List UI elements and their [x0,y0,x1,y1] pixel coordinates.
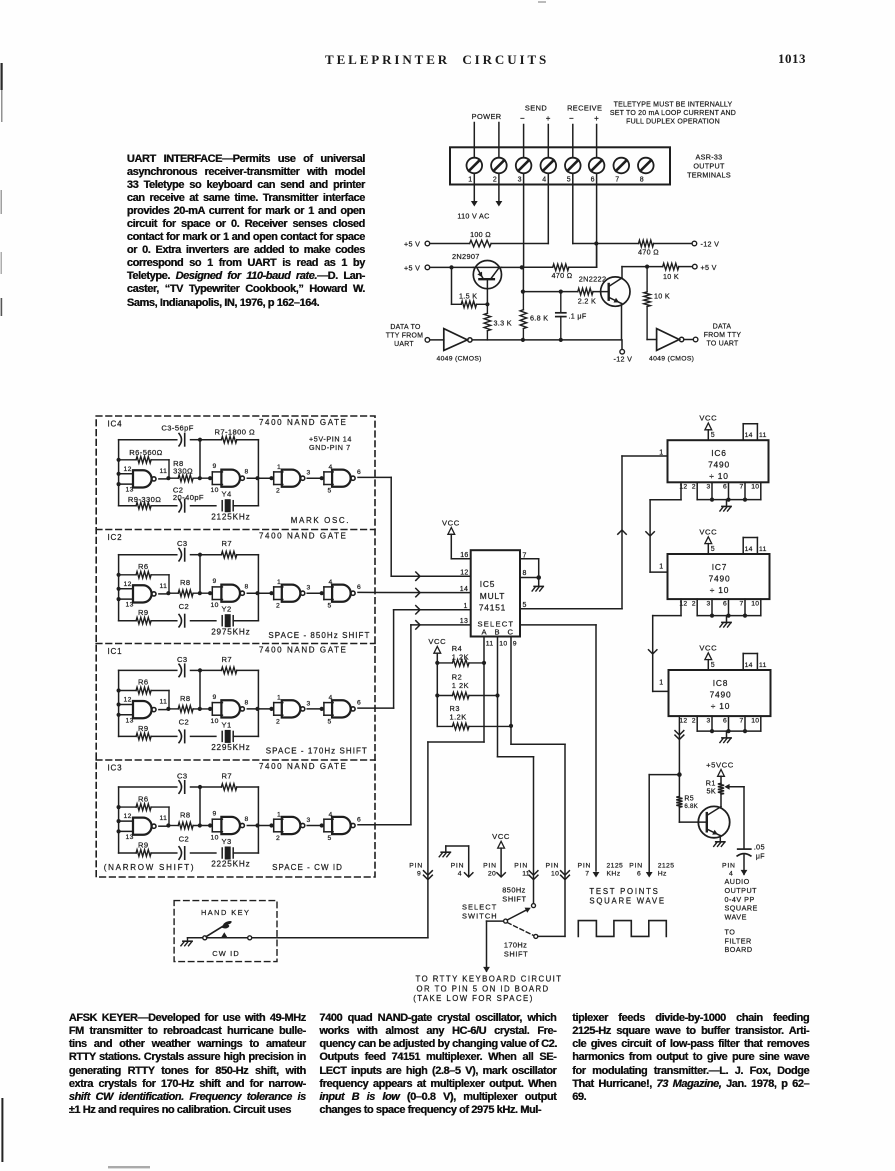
svg-text:R7: R7 [222,655,233,664]
nand gate B IC4 pins 9 10 8 [208,476,212,480]
svg-text:CW ID: CW ID [212,949,240,958]
wire IC7 pin12 to IC8 pin 1 [680,599,682,616]
capacitor C2 IC3 [179,847,182,859]
svg-text:2225KHz: 2225KHz [211,860,250,869]
wire feedback top [119,439,177,441]
select switch 850Hz contact [532,904,536,908]
counter IC7 7490 box [668,554,770,599]
svg-text:13: 13 [126,834,134,841]
svg-text:7: 7 [585,870,589,877]
svg-text:PIN: PIN [722,862,736,869]
svg-text:1: 1 [468,177,472,184]
svg-text:÷ 10: ÷ 10 [710,585,729,595]
resistor 1.5K [451,267,453,304]
svg-text:SPACE - 850Hz SHIFT: SPACE - 850Hz SHIFT [268,631,370,640]
screw terminal 3 [516,158,532,174]
transistor Q3 buffer [698,806,729,837]
svg-text:3: 3 [707,600,711,607]
resistor R9 IC4 [136,502,151,509]
resistor R8 IC2 [168,592,178,594]
svg-text:11: 11 [160,815,168,822]
svg-text:R6: R6 [138,562,149,571]
wire IC8 pin12 output [678,716,680,775]
svg-text:11: 11 [160,468,168,475]
svg-text:C3: C3 [177,539,188,548]
resistor R9 IC3 [136,850,151,857]
svg-text:+: + [594,114,599,123]
svg-text:5: 5 [711,662,715,669]
svg-text:R9-330Ω: R9-330Ω [128,495,161,504]
wire left rail [118,670,120,736]
svg-text:13: 13 [460,618,468,625]
svg-text:6: 6 [591,177,595,184]
wire t3 down [522,267,524,291]
svg-text:B: B [495,627,500,636]
svg-text:KHz: KHz [607,870,621,877]
paragraph AFSK KEYER caption col 2 [319,1012,556,1117]
svg-text:PIN: PIN [483,863,497,870]
svg-text:ASR-33: ASR-33 [696,153,723,162]
ground bus IC6 pins 2 3 6 7 10 [696,482,698,499]
svg-text:4: 4 [329,811,333,818]
capacitor C3 IC2 [179,549,182,561]
svg-text:SPACE - 170Hz SHIFT: SPACE - 170Hz SHIFT [266,747,368,756]
wire to test point PIN 6 [649,774,679,776]
screw terminal 8 [638,158,654,174]
svg-text:14: 14 [745,546,753,553]
svg-text:Y3: Y3 [222,837,232,846]
svg-text:R7: R7 [222,539,233,548]
connector PIN 7 test point [593,872,600,878]
svg-text:1: 1 [277,811,281,818]
svg-text:470 Ω: 470 Ω [552,271,573,280]
resistor 10K horizontal [663,263,679,270]
svg-text:+: + [546,114,551,123]
svg-text:3: 3 [307,585,311,592]
svg-text:-12 V: -12 V [701,240,720,249]
svg-text:20: 20 [488,870,496,877]
svg-text:7: 7 [615,177,619,184]
svg-text:6: 6 [357,816,361,823]
connector PIN 4 ground [445,846,447,852]
svg-text:AUDIO: AUDIO [725,877,750,886]
svg-text:−: − [520,114,525,123]
nand gate A IC1 pins 12 13 11 [119,704,133,706]
nand gate B IC3 pins 9 10 8 [208,823,212,827]
svg-text:1 2K: 1 2K [452,681,469,690]
svg-text:PIN: PIN [514,863,528,870]
wire terminal 5 RECEIVE- [572,125,574,244]
svg-text:3: 3 [707,717,711,724]
svg-text:6.8 K: 6.8 K [530,314,548,323]
scan artifact left edge [1,1,547,1168]
svg-text:20-40pF: 20-40pF [173,493,204,502]
wire select C to PIN 10 connector [511,743,565,745]
svg-text:2: 2 [276,488,280,495]
wire pin 7 to ground [520,558,539,560]
svg-text:6: 6 [637,870,641,877]
svg-text:10: 10 [211,835,219,842]
ground hand key [187,938,189,941]
pins 14-11 loop IC7 [742,538,744,555]
wire emitter down [621,304,623,340]
wire IC2 output to pin 14 [358,591,471,593]
node R8 out [198,476,202,480]
wire wiper to capacitor [743,787,745,848]
node C3/R7 [198,668,202,672]
ground bus IC7 pins 2 3 6 7 10 [696,599,698,616]
resistor R8 IC3 [168,825,178,827]
transistor Q2 2N2222 [601,277,630,306]
svg-text:6: 6 [723,600,727,607]
svg-text:470 Ω: 470 Ω [638,248,659,257]
svg-text:2295KHz: 2295KHz [211,743,250,752]
wire R1 to collector [720,794,722,806]
capacitor C .05uF [738,848,751,850]
wire left rail [118,440,120,506]
svg-text:1.5 K: 1.5 K [459,291,477,300]
svg-text:.1 μF: .1 μF [569,312,587,321]
svg-text:6.8K: 6.8K [684,803,698,810]
svg-text:OR TO PIN 5 ON ID BOARD: OR TO PIN 5 ON ID BOARD [417,984,550,993]
svg-text:VCC: VCC [492,832,510,841]
svg-text:1: 1 [277,695,281,702]
svg-text:IC7: IC7 [712,562,727,572]
svg-text:2: 2 [692,484,696,491]
svg-text:8: 8 [245,584,249,591]
svg-text:VCC: VCC [699,414,717,423]
svg-text:÷ 10: ÷ 10 [711,701,730,711]
svg-text:SHIFT: SHIFT [504,950,528,959]
svg-text:Y1: Y1 [222,720,232,729]
svg-text:TERMINALS: TERMINALS [687,171,731,180]
wire feedback top [119,669,177,671]
svg-text:2: 2 [493,177,497,184]
nand gate A IC3 pins 12 13 11 [119,820,133,822]
svg-text:TELETYPE MUST BE INTERNALLY: TELETYPE MUST BE INTERNALLY [614,102,733,109]
svg-text:C3: C3 [177,655,188,664]
svg-text:TTY FROM: TTY FROM [386,333,424,340]
resistor R8 IC1 [168,708,178,710]
svg-text:R6-560Ω: R6-560Ω [129,448,162,457]
crystal Y2 2975KHz [221,616,223,626]
terminal data input [425,338,430,343]
terminal -12V bottom [621,340,623,350]
svg-text:7: 7 [740,717,744,724]
svg-text:170Hz: 170Hz [504,941,527,950]
wire +5V to 2N2907 [430,266,474,268]
wire C3 node down [199,555,201,594]
svg-text:TEST POINTS: TEST POINTS [589,887,659,896]
wire IC1 output to pin 1 [358,707,394,709]
svg-text:C: C [508,627,514,636]
svg-text:C2: C2 [179,834,190,843]
svg-text:7: 7 [740,484,744,491]
capacitor C2 IC4 [179,500,182,512]
svg-text:13: 13 [126,717,134,724]
svg-text:2: 2 [276,835,280,842]
svg-text:11: 11 [759,432,767,439]
svg-text:VCC: VCC [699,528,717,537]
svg-text:5: 5 [567,177,571,184]
svg-text:0-4V PP: 0-4V PP [725,895,755,904]
svg-text:R8: R8 [180,578,191,587]
svg-text:7400 NAND GATE: 7400 NAND GATE [259,646,348,655]
paragraph UART INTERFACE caption [127,153,365,310]
svg-text:SHIFT: SHIFT [502,895,526,904]
wire t5 to -12V row [573,243,639,245]
wire terminal 4 SEND+ [547,125,549,244]
svg-text:4049 (CMOS): 4049 (CMOS) [649,356,694,363]
svg-text:TO RTTY KEYBOARD CIRCUIT: TO RTTY KEYBOARD CIRCUIT [416,975,563,984]
wire select A to PIN 9 connector [428,741,484,743]
wire pin 8 [520,577,539,579]
svg-text:9: 9 [513,641,517,648]
resistor R8 IC4 [168,477,178,479]
svg-text:13: 13 [126,602,134,609]
svg-text:8: 8 [640,177,644,184]
wire select B to PIN 11 connector [498,756,534,758]
svg-text:7490: 7490 [708,460,730,470]
svg-text:IC5: IC5 [480,579,495,589]
svg-text:TO UART: TO UART [706,341,739,348]
resistor 100 ohm [430,243,470,245]
svg-text:1: 1 [659,564,663,571]
running head TELEPRINTER CIRCUITS [325,52,546,68]
svg-text:R6: R6 [138,794,149,803]
wire t6 down to collector row [596,244,598,268]
wire bottom feedback [119,735,137,737]
svg-text:DATA TO: DATA TO [390,324,421,331]
svg-text:4: 4 [329,695,333,702]
wire left rail [118,555,120,621]
wire bottom feedback [119,620,137,622]
wire IC6 pin12 to IC7 pin 1 [680,482,682,500]
svg-text:+5 V: +5 V [404,240,420,249]
node gate B out [255,823,259,827]
svg-text:Y4: Y4 [222,490,232,499]
svg-text:+5 V: +5 V [404,264,420,273]
svg-text:1: 1 [277,579,281,586]
svg-text:3: 3 [518,177,522,184]
svg-text:9: 9 [213,811,217,818]
resistor R7 IC3 [200,786,221,788]
svg-text:HAND KEY: HAND KEY [201,908,250,917]
nand gate D IC2 pins 4 5 6 [320,591,324,595]
svg-text:11: 11 [160,583,168,590]
svg-text:10: 10 [751,600,759,607]
svg-text:IC1: IC1 [108,647,123,656]
capacitor .1uF [560,292,562,313]
select pin 10 line [497,637,499,757]
resistor R9 IC2 [136,617,151,624]
wire C3 node down [199,670,201,709]
svg-text:6: 6 [357,700,361,707]
svg-text:VCC: VCC [442,519,460,528]
svg-text:5: 5 [328,835,332,842]
svg-text:+5 V: +5 V [701,263,717,272]
wire IC4 output to pin 12 [358,476,391,478]
pins 14-11 loop IC6 [742,424,744,441]
svg-text:12: 12 [124,813,132,820]
resistor R6 IC2 [119,574,137,576]
svg-text:14: 14 [745,432,753,439]
node R8 out [198,823,202,827]
wire right rail [257,555,259,621]
ASR-33 terminal strip [450,147,670,184]
svg-text:5: 5 [711,546,715,553]
svg-text:R6: R6 [138,678,149,687]
page number 1013 [778,51,806,67]
wire terminal 1 power lead [473,123,475,202]
svg-text:8: 8 [245,816,249,823]
node gate B out [255,707,259,711]
svg-text:1 2K: 1 2K [452,652,469,661]
svg-text:SQUARE: SQUARE [725,904,758,913]
svg-text:2: 2 [692,717,696,724]
svg-text:PIN: PIN [629,863,643,870]
svg-text:6: 6 [723,717,727,724]
svg-text:2: 2 [276,718,280,725]
capacitor C3 IC4 [179,434,182,446]
node C3/R7 [198,438,202,442]
select pin 11 pullup line [483,637,485,743]
svg-text:10: 10 [551,870,559,877]
svg-text:.05: .05 [754,843,765,852]
svg-text:FROM TTY: FROM TTY [704,332,742,339]
multiplexer IC5 74151 box [471,550,520,636]
svg-text:8: 8 [245,469,249,476]
svg-text:12: 12 [124,581,132,588]
svg-text:3: 3 [307,817,311,824]
nand gate D IC4 pins 4 5 6 [320,476,324,480]
ground IC6 [726,500,728,507]
inverter 4049 left [444,329,468,351]
svg-text:GND-PIN 7: GND-PIN 7 [309,443,351,452]
svg-text:C2: C2 [179,718,190,727]
svg-text:IC4: IC4 [108,420,123,429]
svg-text:9: 9 [417,870,421,877]
svg-text:C2: C2 [179,602,190,611]
svg-text:2: 2 [692,600,696,607]
svg-text:6: 6 [357,469,361,476]
wire IC5 pin5 into IC6 pin 1 [622,455,668,457]
svg-text:SPACE - CW ID: SPACE - CW ID [272,863,343,872]
svg-text:MARK OSC.: MARK OSC. [291,516,350,525]
screw terminal 2 [491,158,507,174]
svg-text:VCC: VCC [428,637,446,646]
svg-text:R9: R9 [138,841,149,850]
node base divider [449,265,453,269]
svg-text:100 Ω: 100 Ω [470,230,491,239]
svg-text:SQUARE WAVE: SQUARE WAVE [589,896,665,905]
svg-text:10: 10 [211,487,219,494]
svg-text:R7: R7 [222,772,233,781]
switch dashed blade to 170Hz [507,923,533,936]
svg-text:UART: UART [394,341,414,348]
terminal +5V upper [425,241,430,246]
node R8 out [198,707,202,711]
svg-text:PIN: PIN [409,863,423,870]
svg-text:1.2K: 1.2K [450,713,467,722]
svg-text:R5: R5 [684,795,694,802]
wire bottom feedback [119,852,137,854]
resistor 6.8K [522,292,524,310]
nand gate C IC4 pins 1 2 3 [269,476,273,480]
resistor R7 IC4 [200,439,221,441]
svg-text:C3: C3 [177,772,188,781]
svg-text:PIN: PIN [451,863,465,870]
wire W output to test point PIN 7 [520,624,596,626]
square wave trace [578,921,666,937]
svg-text:IC3: IC3 [108,764,123,773]
switch blade to 850Hz [507,909,528,920]
svg-text:POWER: POWER [472,112,502,121]
svg-text:5: 5 [328,603,332,610]
svg-text:330Ω: 330Ω [173,466,193,475]
nand gate B IC1 pins 9 10 8 [208,707,212,711]
svg-text:OUTPUT: OUTPUT [693,162,725,171]
wire bottom feedback [119,505,137,507]
capacitor C2 IC2 [179,615,182,627]
paragraph AFSK KEYER caption col 1 [69,1012,306,1117]
svg-text:4: 4 [542,177,546,184]
select switch 170Hz contact [534,934,538,938]
svg-text:VCC: VCC [699,644,717,653]
svg-text:Hz: Hz [658,870,667,877]
wire terminal 3 SEND- [523,125,525,268]
svg-text:11: 11 [160,699,168,706]
resistor R6 IC3 [119,806,137,808]
svg-text:2975KHz: 2975KHz [211,627,250,636]
svg-text:R7-1800 Ω: R7-1800 Ω [215,427,256,436]
svg-text:13: 13 [126,487,134,494]
audio output arrow PIN 4 [743,855,745,874]
wire right rail [257,440,259,506]
wire feedback top [119,786,177,788]
svg-text:12: 12 [124,466,132,473]
svg-text:PIN: PIN [578,863,592,870]
wire terminal 2 power lead [498,123,500,202]
svg-text:7490: 7490 [709,574,731,584]
connector PIN 6 test point [646,872,653,878]
svg-text:5: 5 [711,432,715,439]
nand gate C IC2 pins 1 2 3 [269,591,273,595]
svg-text:BOARD: BOARD [725,945,753,954]
svg-text:R9: R9 [138,724,149,733]
wire terminal 6 RECEIVE+ [596,125,598,268]
svg-text:7490: 7490 [710,690,732,700]
svg-text:10: 10 [751,717,759,724]
svg-text:RECEIVE: RECEIVE [567,104,602,113]
svg-text:5: 5 [328,488,332,495]
nand gate D IC1 pins 4 5 6 [320,707,324,711]
svg-text:A: A [482,627,488,636]
wire C3 node down [199,440,201,479]
resistor R2 1.2K [437,695,452,697]
resistor 10K vertical [646,267,648,292]
node C3/R7 [198,785,202,789]
svg-text:3: 3 [307,470,311,477]
svg-text:1: 1 [659,680,663,687]
svg-text:(TAKE LOW FOR SPACE): (TAKE LOW FOR SPACE) [413,994,534,1003]
nand gate C IC1 pins 1 2 3 [269,707,273,711]
wire right rail [257,787,259,853]
wire bottom rail left [472,339,621,341]
svg-text:10: 10 [751,484,759,491]
capacitor C3 IC3 [179,781,182,793]
svg-text:TO: TO [725,928,736,937]
